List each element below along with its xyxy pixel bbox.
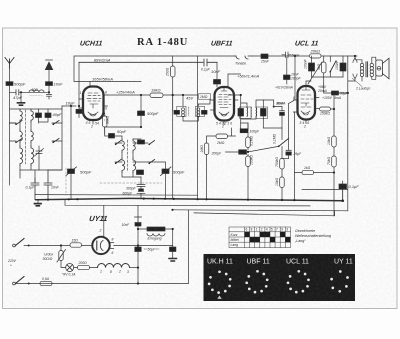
socket UBF11 dots [245,270,268,294]
tube UBF11 [215,87,235,121]
wires osc block [115,139,148,177]
resistor 5k ohm [322,62,327,73]
speaker [376,60,383,76]
wire grid feed [10,92,77,123]
capacitor 10nF [46,82,53,86]
node mains junction [60,244,62,246]
resistor 0.1M ohm [246,137,251,148]
capacitor IF1b [202,110,208,114]
resistor 1k ohm [302,170,314,174]
IF2 shield boxes [240,107,251,118]
capacitor 100nF a [309,63,315,71]
capacitor trimmer to ground [46,92,51,99]
capacitor 100nF b [340,63,346,71]
socket UCL11 dots [287,270,310,294]
coil L3b [31,146,34,166]
socket index mark [217,296,221,299]
coil IF1b [197,108,200,117]
resistor 200 ohm [78,265,90,269]
coil L2a [20,130,22,142]
ground uy b [169,259,177,262]
antenna [5,58,14,69]
tube pins UBF11 [211,100,239,125]
wire antenna row [10,91,50,93]
capacitor 25nF [261,54,268,59]
core dashes osc [127,140,129,172]
tube UY11 [92,237,109,254]
capacitor 100pF col [284,75,291,80]
coil L4b [133,139,135,152]
capacitor 10nF uy [135,217,142,225]
capacitor osc pad2 [137,170,144,175]
tube pins UCL11 [294,98,320,124]
resistor 15 ohm [70,243,82,247]
node bus dots [47,199,49,201]
resistor 0.08M ohm [246,156,251,167]
wire bottoms [312,77,344,84]
coil L3a [20,146,23,166]
capacitor 50pF osc grid [109,134,115,139]
capacitor 40pF b [45,113,51,118]
coil IF2b [255,108,258,117]
coil IF2a [246,108,249,117]
capacitor 300pF [137,177,145,187]
wire main ground bus thick [36,198,343,200]
coil L1a [20,109,22,122]
wire block bottom [20,158,39,178]
resistor 150k ohm [320,107,331,111]
capacitor 40pF a [36,113,42,118]
capacitor 10nF to UCL grid [280,110,285,112]
capacitor 200pF det2 [239,150,247,154]
capacitor 500pF osc top [138,111,145,116]
capacitor 10nF grid [214,80,221,85]
switch S1b [16,139,22,143]
core dashes [25,110,27,164]
panel [204,254,356,301]
wire bus3 [173,210,348,211]
wire AF to volume [226,146,279,152]
switch S2b [116,160,122,164]
tube UCH11 [83,87,104,121]
resistor 10k pot [280,177,285,188]
switch S1d [53,139,59,143]
wire pot rail [263,119,282,200]
fuse 0.5A [40,281,52,285]
transformer T1 primary [360,63,363,76]
capacitor IF2a [238,109,244,117]
ground antenna [20,92,22,102]
coil IF1a [182,108,185,117]
tube pins UCH11 [79,95,108,124]
tube UCL11 [298,86,316,120]
wire bus2 [65,199,310,206]
wire thin ground rail [35,194,198,197]
jack fork lower [353,74,357,79]
wire rail 197 [197,56,199,199]
resistor Urdox [59,251,63,261]
wire rail 172 crossing [172,95,174,199]
coil 60 ohm [29,90,44,92]
resistor 50k ohm [103,116,108,127]
wire anode top [90,82,141,87]
switch S2a [116,141,122,145]
switch S2c [149,141,155,145]
label switch note [294,229,331,243]
trimmer capacitor [35,149,44,157]
transformer T1 core [366,62,368,77]
resistor 20k ohm b [332,156,337,167]
switch mains upper [16,239,25,246]
wire left rail [10,109,63,185]
dashed gang line [65,168,67,195]
label 1M ohm box [199,94,211,99]
wires coil block internals [10,122,63,170]
capacitor 47pF [16,90,19,95]
wire rail x334 [334,93,348,216]
switch S2d [149,160,155,164]
capacitor 0.1uF input [79,59,217,66]
tube pins UY11 [104,206,114,249]
coil L5a [122,158,125,172]
capacitor 500pF [6,82,13,86]
capacitor IF2b [261,109,267,117]
capacitor 50uF b [170,247,176,252]
wire heater return [130,267,139,269]
capacitor IF1a [174,110,180,114]
mains terminal lower [13,282,16,285]
resistor 2M ohm [216,134,228,139]
resistor 250 ohm [171,66,176,77]
capacitor 50uF [135,247,141,252]
wire rail x348 [302,56,348,211]
capacitor osc pad [138,140,145,144]
wire bus4 [194,211,335,216]
node rail dots [333,108,335,110]
socket UCH11 dots [208,270,232,294]
capacitor 0.1uF psu [339,184,347,189]
wire thick psu bus [342,189,344,201]
capacitor 50nF top [282,52,291,58]
wire B+ bus [295,55,357,57]
resistor 750k pot [280,159,285,170]
wire +25V row [108,94,198,96]
transformer T1 secondary [370,63,373,76]
coil L5b [133,158,136,172]
wire uy output [114,229,173,246]
capacitor 100pF det [240,129,248,133]
lamp dial [66,264,74,272]
wire 88V bus [74,56,234,82]
wire to UCL grid [293,112,296,200]
switch S1a [16,121,22,125]
wire bottom [15,210,188,283]
resistor 18k ohm [150,93,163,98]
jack fork upper [353,58,357,63]
heater chain coils [98,264,130,268]
resistor 20k ohm [310,54,322,58]
coil L4a [122,139,124,152]
switch S1c [53,121,59,125]
resistor 1M ohm det [204,143,209,155]
capacitor 100nF c [332,91,339,95]
coil L1b [31,109,33,122]
capacitor 25uF cathode [286,149,291,151]
variable capacitor 500pF tuning [68,169,75,174]
switch klang [330,61,336,72]
coil L2b [31,130,33,142]
IF1 shield boxes [177,106,186,116]
socket UY11 dots [330,270,349,293]
pickup hooks Tonabn [236,56,248,59]
mains terminal upper [13,244,16,247]
capacitor 600pF bus [137,187,145,199]
capacitor 500pF screen [140,95,142,111]
field coil Erregung [147,227,165,231]
wire tuning rail [70,106,72,160]
switch volume [279,139,289,147]
variable capacitor 500pF osc [162,169,169,174]
wires transformer [355,56,376,81]
node antenna junction [48,91,50,93]
ground main [35,204,42,206]
wire UCL anode up [306,62,322,86]
capacitor 0.1uF [31,178,39,200]
capacitor 10pF [76,109,82,113]
earth arrow [45,62,52,70]
resistor 10k ohm [332,136,337,147]
capacitor 10nF b [44,170,52,200]
node bus junctions [140,94,142,96]
switch mains lower [16,277,25,284]
